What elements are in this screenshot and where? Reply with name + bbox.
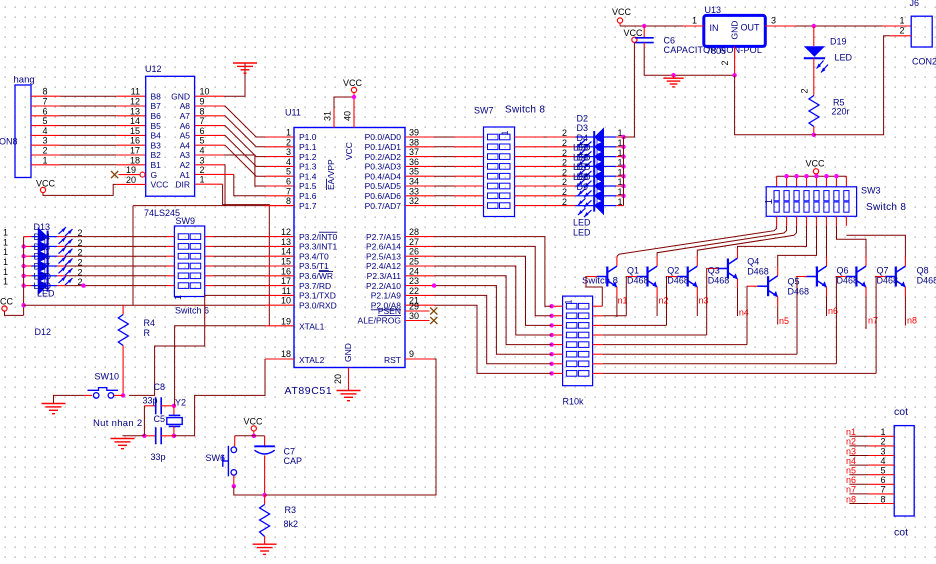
SW7 element 2 — [488, 144, 499, 150]
LED D6 — [575, 167, 623, 188]
Q6 emitter wire — [865, 287, 867, 297]
wire LED bus to VCC riser — [624, 43, 635, 138]
svg-text:P1.7: P1.7 — [299, 201, 317, 211]
svg-text:1: 1 — [3, 228, 8, 238]
svg-text:D12: D12 — [35, 327, 52, 337]
svg-text:4: 4 — [286, 157, 291, 167]
svg-text:24: 24 — [409, 266, 419, 276]
svg-text:n5: n5 — [779, 316, 789, 326]
svg-text:B7: B7 — [151, 101, 162, 111]
svg-text:10: 10 — [281, 296, 291, 306]
power VCC lower left — [2, 306, 7, 311]
wire ON8 pin 8 to U12 pin 11 — [31, 95, 60, 97]
node XTAL1/Y2/C8 — [172, 404, 176, 408]
U13 pin 1 stub — [683, 25, 704, 27]
wire D13 LED row 3 to SW9 — [66, 255, 167, 257]
R10k right stub 5 — [593, 344, 603, 346]
svg-text:B8: B8 — [151, 91, 162, 101]
Q7 base wire — [875, 276, 885, 278]
svg-text:14: 14 — [130, 116, 140, 126]
svg-text:7: 7 — [200, 116, 205, 126]
svg-text:1: 1 — [3, 277, 8, 287]
wire P2.7 to R10k row 1 — [434, 237, 552, 307]
svg-text:GND: GND — [730, 21, 740, 40]
R10k right stub 3 — [593, 324, 603, 326]
wire U11 P0.4 to SW7 — [434, 175, 455, 177]
U12 right pin 5 stub — [195, 144, 224, 146]
svg-text:P3.0/RXD: P3.0/RXD — [299, 300, 337, 310]
R10k right stub 1 — [593, 305, 603, 307]
wire net n7 to cot pin 7 — [849, 493, 868, 495]
SW7 element 4 — [488, 164, 499, 170]
wire SW7 to LED D6 — [515, 175, 544, 177]
svg-text:11: 11 — [131, 87, 140, 97]
node row6 junction — [81, 283, 85, 287]
wire XTAL1 riser — [175, 326, 265, 406]
svg-text:25: 25 — [409, 257, 419, 267]
R10k left stub 8 — [552, 372, 563, 374]
svg-text:Q7: Q7 — [877, 266, 889, 276]
transistor Q2 D468 — [677, 266, 697, 287]
svg-text:8k2: 8k2 — [284, 519, 299, 529]
LED D13 — [24, 227, 73, 246]
SW9 left stub 6 — [167, 285, 175, 287]
svg-text:7: 7 — [880, 485, 885, 495]
R10k left stub 2 — [552, 315, 563, 317]
U11 pin 6 P1.5 — [265, 185, 294, 187]
svg-text:Q3: Q3 — [708, 266, 720, 276]
LED D8 — [575, 186, 623, 207]
node R10k pin 5 — [549, 342, 553, 346]
U11 pin 2 P1.1 — [265, 146, 294, 148]
svg-text:39: 39 — [409, 128, 419, 138]
svg-text:P0.0/AD0: P0.0/AD0 — [365, 132, 402, 142]
svg-text:17: 17 — [281, 276, 291, 286]
wire A5 to P1.3 — [224, 135, 265, 166]
svg-text:Switch 8: Switch 8 — [866, 202, 906, 213]
svg-text:R: R — [144, 328, 151, 338]
svg-text:17: 17 — [130, 146, 140, 156]
node LED D4 cathode — [621, 154, 625, 158]
svg-text:16: 16 — [281, 266, 291, 276]
svg-text:B6: B6 — [151, 111, 162, 121]
svg-text:1: 1 — [3, 257, 8, 267]
svg-text:D468: D468 — [877, 275, 899, 285]
svg-text:11: 11 — [282, 286, 291, 296]
svg-text:1: 1 — [3, 247, 8, 257]
SW9 element 1 — [178, 234, 189, 240]
wire ON8 pin 2 to U12 pin 17 — [31, 154, 60, 156]
power VCC main top — [617, 18, 622, 23]
power VCC at SW3 — [813, 169, 818, 174]
wire C6 bottom to ground rail — [644, 47, 734, 75]
D19 cathode wire — [813, 58, 815, 95]
transistor Q0 D468 — [597, 266, 617, 287]
Q2 emitter wire — [696, 287, 698, 297]
node R10k pin 2 — [549, 314, 553, 318]
wire VCC node to SW6 — [235, 435, 254, 437]
U11 pin 22 P2.1/A9 — [405, 294, 434, 296]
svg-text:RST: RST — [384, 355, 401, 365]
node R10k pin 6 — [549, 352, 553, 356]
svg-text:B1: B1 — [151, 160, 162, 170]
svg-text:28: 28 — [409, 227, 419, 237]
svg-text:2: 2 — [880, 437, 885, 447]
node R10k pin 3 — [549, 323, 553, 327]
wire R10k row5 to Q4 base drop — [602, 344, 747, 346]
ground at C6 — [673, 75, 675, 77]
wire A2 down to P1.7 row — [224, 165, 225, 206]
svg-text:8: 8 — [200, 106, 205, 116]
SW9 right stub 6 — [205, 285, 213, 287]
svg-text:6: 6 — [42, 106, 47, 116]
svg-text:6: 6 — [880, 475, 885, 485]
svg-text:J6: J6 — [910, 0, 920, 8]
SW3 element 5 — [814, 191, 819, 201]
R10k left stub 1 — [552, 305, 563, 307]
SW3 pin 1 top stub — [776, 176, 778, 187]
SW3 element 8 — [844, 191, 849, 201]
U12 right pin 7 stub — [195, 125, 224, 127]
svg-text:DIR: DIR — [175, 180, 190, 190]
node D13 bus row 3 — [21, 254, 25, 258]
wire VCC node to C7 — [254, 435, 265, 437]
LED D18 — [24, 276, 73, 295]
wire SW7 to LED D2 — [515, 136, 544, 138]
transistor Q1 D468 — [637, 266, 657, 287]
SW3 pin 16 bottom stub — [845, 216, 847, 226]
svg-text:P3.5/T1: P3.5/T1 — [299, 261, 329, 271]
connector ON8 (hang) — [15, 85, 31, 178]
wire RXD row long — [135, 304, 265, 306]
SW7 element 5 — [488, 173, 499, 179]
svg-text:2: 2 — [562, 187, 567, 197]
svg-text:2: 2 — [562, 138, 567, 148]
svg-text:Y2: Y2 — [175, 398, 186, 408]
svg-text:CAP: CAP — [284, 456, 303, 466]
svg-text:19: 19 — [281, 316, 291, 326]
wire ON8 pin 1 to U12 pin 18 — [31, 164, 60, 166]
U11 pin 40 VCC stub — [353, 97, 355, 128]
transistor Q3 D468 — [717, 258, 737, 279]
svg-text:D13: D13 — [34, 222, 51, 232]
svg-text:B2: B2 — [151, 150, 162, 160]
svg-text:1: 1 — [880, 427, 885, 437]
R10k right stub 6 — [593, 353, 603, 355]
svg-text:P0.4/AD4: P0.4/AD4 — [365, 171, 402, 181]
Q4 base drop to R10k row5 — [746, 286, 749, 344]
R10k element 5 — [566, 342, 577, 348]
wire SW9 to U11 P3 row 3 — [213, 255, 265, 257]
SW7 element 1 — [488, 134, 499, 140]
Q6 base wire — [836, 276, 846, 278]
svg-text:1: 1 — [200, 175, 205, 185]
R10k element 2 — [566, 313, 577, 319]
wire SW9 to U11 P3 row 6 — [213, 285, 265, 287]
svg-text:2: 2 — [562, 177, 567, 187]
node R10k pin 1 — [549, 304, 553, 308]
svg-text:5: 5 — [200, 136, 205, 146]
U11 pin 36 P0.3/AD3 — [405, 165, 434, 167]
svg-text:SW10: SW10 — [95, 372, 120, 382]
wire A7 to P1.1 — [224, 116, 265, 147]
svg-text:A6: A6 — [180, 121, 191, 131]
svg-text:1: 1 — [286, 128, 291, 138]
U12 right pin 8 stub — [195, 115, 224, 117]
svg-text:2: 2 — [562, 148, 567, 158]
svg-text:Q6: Q6 — [837, 266, 849, 276]
svg-text:D14: D14 — [34, 232, 51, 242]
svg-text:XTAL2: XTAL2 — [299, 355, 325, 365]
SW7 element 3 — [488, 154, 499, 160]
wire C5 left to ground — [123, 435, 145, 437]
node SW3 bus 3 — [794, 174, 798, 178]
Q7 base drop to R10k row8 — [874, 277, 877, 374]
svg-text:6: 6 — [286, 177, 291, 187]
wire TXD row to SW10 path — [129, 295, 265, 395]
svg-text:1: 1 — [500, 130, 510, 135]
power VCC at U12 pin 20 — [40, 187, 45, 192]
Q6 base drop to R10k row7 — [835, 276, 838, 278]
svg-text:33: 33 — [409, 186, 419, 196]
svg-text:P1.6: P1.6 — [299, 191, 317, 201]
wire P2.6 to R10k row 2 — [434, 246, 552, 315]
DIP switch SW3 — [766, 187, 856, 217]
R10k element 3 — [566, 323, 577, 329]
Q2 base drop to R10k row3 — [666, 277, 669, 326]
SW9 left stub 1 — [167, 236, 175, 238]
R10k element 7 — [566, 361, 577, 367]
svg-text:1: 1 — [764, 199, 775, 205]
svg-text:3: 3 — [200, 155, 205, 165]
wire LED cathode bus — [623, 137, 625, 206]
Q7 emitter wire — [904, 287, 906, 297]
svg-text:D468: D468 — [788, 286, 810, 296]
svg-text:SW9: SW9 — [176, 216, 196, 226]
svg-text:GND: GND — [171, 91, 190, 101]
svg-text:23: 23 — [409, 276, 419, 286]
U13 pin 2 GND stub — [734, 46, 736, 75]
svg-text:13: 13 — [130, 106, 140, 116]
svg-text:20: 20 — [333, 374, 343, 384]
svg-text:A5: A5 — [180, 131, 191, 141]
svg-text:1: 1 — [3, 237, 8, 247]
svg-text:32: 32 — [409, 196, 419, 206]
svg-text:LED: LED — [573, 218, 591, 228]
svg-text:Switch 8: Switch 8 — [505, 105, 545, 116]
svg-text:1: 1 — [173, 295, 183, 300]
svg-text:C7: C7 — [284, 447, 296, 457]
R10k element 1 — [566, 303, 577, 309]
svg-text:7: 7 — [286, 186, 291, 196]
svg-text:Switch 6: Switch 6 — [175, 306, 209, 316]
svg-text:B5: B5 — [151, 121, 162, 131]
Q0 base wire — [587, 276, 597, 278]
SW9 right stub 2 — [205, 245, 213, 247]
wire net n6 to cot pin 6 — [849, 483, 868, 485]
wire R10k row4 to Q3 base drop — [602, 334, 706, 336]
svg-text:40: 40 — [343, 111, 353, 121]
svg-text:19: 19 — [126, 165, 136, 175]
svg-text:P2.3/A11: P2.3/A11 — [367, 271, 402, 281]
svg-text:P1.3: P1.3 — [299, 162, 317, 172]
wire U11 P0.0 to SW7 — [434, 136, 455, 138]
node LED D3 cathode — [621, 145, 625, 149]
R10k left stub 4 — [552, 334, 563, 336]
U11 pin 28 P2.7/A15 — [405, 236, 434, 238]
U11 pin 1 P1.0 — [265, 136, 294, 138]
node VCC SW6/C7 — [252, 434, 256, 438]
SW9 element 5 — [178, 273, 189, 279]
svg-text:2: 2 — [200, 165, 205, 175]
wire ON8 pin 3 to U12 pin 16 — [31, 144, 60, 146]
node U13 pin2 junction — [732, 73, 736, 77]
svg-text:P2.2/A10: P2.2/A10 — [366, 281, 401, 291]
wire XTAL2 to Y2 bottom — [174, 359, 265, 436]
wire SW10 to ground — [54, 395, 85, 403]
wire R10k row2 to Q1 base drop — [602, 315, 626, 317]
svg-text:GND: GND — [343, 343, 353, 362]
R10k left stub 3 — [552, 324, 563, 326]
node on P2.2 wire — [432, 283, 436, 287]
svg-text:20: 20 — [126, 175, 136, 185]
U11 pin 21 P2.0/A8 — [405, 304, 434, 306]
U11 pin 35 P0.4/AD4 — [405, 175, 434, 177]
wire ON8 pin 4 to U12 pin 15 — [31, 134, 60, 136]
wire R5 bottom to J6 pin2 — [814, 36, 890, 135]
U11 pin 25 P2.4/A12 — [405, 265, 434, 267]
microcontroller U11 AT89C51 — [294, 128, 405, 368]
svg-text:IN: IN — [710, 23, 719, 33]
U11 pin 24 P2.3/A11 — [405, 275, 434, 277]
LED D7 — [575, 176, 623, 197]
node VCC U11 — [352, 95, 356, 99]
svg-text:P1.2: P1.2 — [299, 152, 317, 162]
wire A4 to P1.4 — [224, 145, 265, 176]
U11 pin 33 P0.6/AD6 — [405, 195, 434, 197]
J6 pin 2 — [890, 35, 911, 37]
transistor Q7 D468 — [885, 266, 905, 287]
svg-text:A2: A2 — [180, 160, 191, 170]
node SW3 bus 4 — [804, 174, 808, 178]
LED D19 — [813, 26, 815, 46]
svg-text:8: 8 — [880, 494, 885, 504]
svg-text:3: 3 — [286, 147, 291, 157]
svg-text:2: 2 — [562, 167, 567, 177]
DIP switch SW9 — [174, 226, 204, 297]
svg-text:Q5: Q5 — [788, 277, 800, 287]
U12 right pin 3 stub — [195, 164, 224, 166]
wire P2.2 to R10k row 6 — [434, 286, 552, 355]
wire U13 out to J6 — [796, 25, 883, 27]
svg-text:hang: hang — [14, 75, 35, 86]
SW3 pin 6 top stub — [825, 176, 827, 187]
U11 pin 27 P2.6/A14 — [405, 245, 434, 247]
svg-text:2: 2 — [78, 267, 83, 277]
LED D4 — [575, 147, 623, 168]
svg-text:2: 2 — [78, 248, 83, 258]
wire SW9 to U11 P3 row 2 — [213, 245, 265, 247]
wire SW7 to LED D3 — [515, 146, 544, 148]
U12 right pin 4 stub — [195, 154, 224, 156]
svg-text:P2.5/A13: P2.5/A13 — [366, 251, 401, 261]
node R5 bottom — [812, 133, 816, 137]
svg-text:A8: A8 — [180, 101, 191, 111]
LED D2 — [575, 127, 623, 148]
SW3 pin 7 top stub — [835, 176, 837, 187]
svg-text:R3: R3 — [285, 505, 297, 515]
wire U11 P0.6 to SW7 — [434, 195, 455, 197]
svg-text:D468: D468 — [837, 275, 859, 285]
SW3 pin 13 bottom stub — [815, 216, 817, 226]
SW3 pin 5 top stub — [815, 176, 817, 187]
capacitor C6 — [643, 26, 645, 37]
Q1 collector wire — [656, 257, 658, 267]
svg-text:P3.4/T0: P3.4/T0 — [299, 251, 329, 261]
svg-text:A4: A4 — [180, 140, 191, 150]
wire ON8 pin 5 to U12 pin 14 — [31, 125, 60, 127]
svg-text:cot: cot — [894, 406, 908, 418]
SW9 left stub 5 — [167, 275, 175, 277]
SW3 pin 9 bottom stub — [776, 216, 778, 226]
LED D9 — [575, 196, 623, 217]
U11 pin 30 ALE/PROG (no connect) — [405, 320, 430, 322]
svg-text:P1.1: P1.1 — [299, 142, 317, 152]
svg-text:Q1: Q1 — [627, 266, 639, 276]
wire net n1 to cot pin 1 — [849, 435, 868, 437]
power VCC above U11 — [351, 87, 356, 92]
wire U13 gnd net down to R5 bottom rail — [735, 75, 814, 135]
svg-text:LED: LED — [573, 152, 591, 162]
ground near U12 — [233, 62, 257, 64]
U11 pin 4 P1.3 — [265, 165, 294, 167]
wire U11 P0.5 to SW7 — [434, 185, 455, 187]
node Y2 bottom — [172, 434, 176, 438]
Q5 base drop to R10k row6 — [795, 277, 798, 355]
R10k right stub 4 — [593, 334, 603, 336]
svg-text:LED: LED — [34, 271, 52, 281]
svg-text:6: 6 — [200, 126, 205, 136]
svg-text:1: 1 — [692, 16, 697, 26]
svg-text:n4: n4 — [846, 456, 856, 466]
R10k left stub 7 — [552, 363, 563, 365]
svg-text:3: 3 — [771, 16, 776, 26]
svg-text:VCC: VCC — [624, 28, 644, 38]
svg-text:cot: cot — [894, 527, 908, 539]
svg-text:2: 2 — [720, 60, 730, 65]
svg-text:n3: n3 — [846, 446, 856, 456]
Q4 emitter wire — [777, 297, 779, 307]
svg-text:Q4: Q4 — [747, 257, 759, 267]
svg-text:D2: D2 — [577, 113, 589, 123]
svg-text:2: 2 — [286, 137, 291, 147]
SW3 pin 4 top stub — [806, 176, 808, 187]
svg-text:n2: n2 — [846, 437, 856, 447]
SW9 left stub 3 — [167, 255, 175, 257]
SW3 element 3 — [794, 191, 799, 201]
svg-text:P1.0: P1.0 — [299, 132, 317, 142]
svg-text:27: 27 — [409, 237, 419, 247]
U13 pin 3 stub — [765, 25, 796, 27]
R10k left stub 6 — [552, 353, 563, 355]
regulator U13 7805 — [704, 15, 766, 46]
svg-text:15: 15 — [130, 126, 140, 136]
SW3 element 6 — [824, 191, 829, 201]
svg-text:P1.5: P1.5 — [299, 181, 317, 191]
SW9 element 4 — [178, 263, 189, 269]
ground at SW10 — [42, 403, 66, 405]
svg-text:Nut nhan 2: Nut nhan 2 — [93, 418, 142, 429]
